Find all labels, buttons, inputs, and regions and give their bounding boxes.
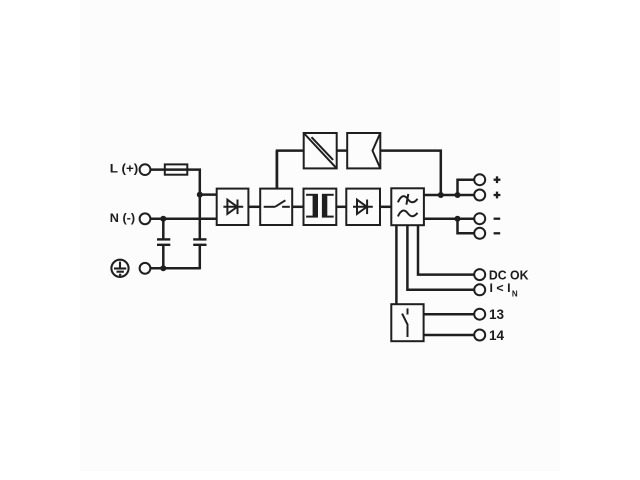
switch icon S1 xyxy=(264,200,290,207)
block filter xyxy=(391,188,424,225)
block DCDC isolator xyxy=(304,133,337,168)
wire N input xyxy=(150,218,216,221)
transformer icon T1 xyxy=(306,195,334,217)
wire L input xyxy=(150,168,201,171)
terminal plus 1 xyxy=(474,174,485,185)
terminal DC OK xyxy=(474,269,485,280)
wire relay feed xyxy=(395,225,398,304)
capacitor C1 xyxy=(157,219,170,268)
label plus 1 xyxy=(494,176,501,183)
svg-text:N (-): N (-) xyxy=(110,211,135,225)
wire feedback left xyxy=(277,151,304,189)
block relay contact xyxy=(391,304,423,341)
node plus bracket junction xyxy=(455,192,461,198)
svg-text:I < I: I < I xyxy=(490,281,511,295)
wire plus bracket xyxy=(458,180,475,195)
terminal minus 1 xyxy=(474,213,485,224)
terminal plus 2 xyxy=(474,190,485,201)
wire isolator-regulator xyxy=(337,149,348,152)
block transformer xyxy=(304,189,337,225)
regulator chevron icon xyxy=(373,133,381,168)
wire feedback right xyxy=(380,151,441,195)
photo background band xyxy=(80,0,560,471)
terminal 13 xyxy=(474,309,485,320)
node N junction xyxy=(160,216,166,222)
terminal I less than IN xyxy=(474,284,485,295)
wire minus bracket xyxy=(458,219,475,234)
wire switch-transformer xyxy=(292,206,303,209)
block rectifier xyxy=(217,189,249,225)
wire output minus xyxy=(424,217,474,220)
wire DC OK xyxy=(418,225,474,274)
wire transformer-diode xyxy=(336,206,346,209)
label minus 1 xyxy=(494,218,501,220)
wire contact 14 xyxy=(424,334,475,337)
block output diode xyxy=(346,189,380,225)
ground PE symbol xyxy=(111,260,128,277)
isolator diagonal icon xyxy=(304,133,337,168)
svg-text:L (+): L (+) xyxy=(110,161,139,175)
node L-rectifier junction xyxy=(197,192,203,198)
filter icon waves xyxy=(398,194,418,217)
diode icon D2 xyxy=(353,200,373,215)
terminal 14 xyxy=(474,330,485,341)
wire switch control pin xyxy=(276,151,279,189)
relay contact icon K1 xyxy=(402,308,408,337)
wire L vertical xyxy=(199,169,202,240)
node output junction xyxy=(438,192,444,198)
terminal L+ xyxy=(140,164,151,175)
wire contact 13 xyxy=(424,313,475,316)
terminal N- xyxy=(140,213,151,224)
diode icon D1 xyxy=(223,200,243,215)
wire rectifier-switch xyxy=(248,206,260,209)
wire I less than IN xyxy=(407,225,474,290)
terminal minus 2 xyxy=(474,228,485,239)
svg-text:N: N xyxy=(512,289,518,298)
block switch xyxy=(260,189,292,225)
block regulator xyxy=(347,133,380,168)
svg-text:13: 13 xyxy=(489,307,505,322)
label minus 2 xyxy=(494,232,501,234)
terminal PE xyxy=(140,263,151,274)
label plus 2 xyxy=(494,192,501,199)
wire output plus xyxy=(424,194,474,197)
wire PE bottom xyxy=(150,267,199,270)
fuse F xyxy=(165,164,188,174)
node PE junction xyxy=(160,265,166,271)
capacitor C2 xyxy=(193,239,206,269)
wire to rectifier L xyxy=(200,193,217,196)
node minus bracket junction xyxy=(455,216,461,222)
wire diode-filter xyxy=(380,206,391,209)
svg-text:14: 14 xyxy=(489,328,505,343)
